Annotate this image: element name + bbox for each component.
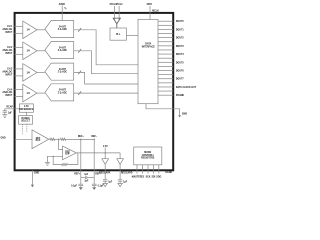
feedback resistor R2 [53, 153, 78, 166]
sigma-delta ADC U4 [45, 84, 74, 101]
svg-text:INPUT: INPUT [5, 95, 12, 97]
svg-text:DOUT2: DOUT2 [176, 38, 185, 40]
svg-text:SCK: SCK [146, 176, 151, 178]
bridge capacitor C2 [81, 176, 94, 179]
svg-text:24-BIT: 24-BIT [59, 89, 67, 92]
mode pin labels [132, 175, 162, 178]
op-amp B2 [63, 146, 77, 160]
bus slash CH2 [78, 49, 81, 53]
svg-text:INPUT: INPUT [5, 32, 12, 34]
svg-text:FRAME: FRAME [176, 94, 185, 97]
CH1 analog input pin labels [2, 26, 13, 34]
dashed control lines [22, 124, 26, 134]
ground C1 [2, 115, 7, 118]
svg-text:RCAP: RCAP [6, 106, 13, 109]
svg-text:1µF: 1µF [8, 112, 13, 114]
wire A2 to ADC [37, 50, 45, 52]
2.5V reference box [19, 104, 34, 112]
bus slash CH3 [78, 71, 81, 75]
svg-text:V₎: V₎ [64, 8, 67, 10]
range select box [19, 116, 33, 125]
buffer T1 [102, 153, 109, 180]
node feedback [53, 156, 54, 157]
svg-text:24-BIT: 24-BIT [59, 46, 67, 49]
wire CH4 ADC output to interface [74, 92, 138, 94]
reference buffer op-amp B1 [32, 130, 49, 149]
svg-text:RANGE: RANGE [21, 117, 30, 120]
svg-text:INTERFACE: INTERFACE [142, 45, 155, 48]
svg-text:CH 1: CH 1 [7, 26, 13, 28]
wire A4 to ADC [37, 92, 45, 94]
svg-text:REFERENCE: REFERENCE [19, 109, 34, 111]
wire PLL to interface [126, 35, 138, 37]
capacitor C1 [3, 111, 7, 115]
ground B2 [45, 162, 50, 165]
svg-text:INPUT: INPUT [5, 74, 12, 76]
svg-text:1µF: 1µF [84, 180, 89, 182]
wire A1 to ADC [37, 29, 45, 31]
svg-text:REGCAPD: REGCAPD [121, 172, 133, 175]
clock input funnel arrow [113, 18, 120, 28]
svg-text:PLL: PLL [116, 34, 121, 36]
wire REFGND to buffer [15, 138, 32, 140]
svg-text:XTAL2: XTAL2 [115, 3, 123, 6]
node REF- [94, 139, 95, 140]
svg-text:0.1µF: 0.1µF [98, 185, 105, 187]
node buffers [105, 152, 106, 153]
svg-text:ANALOG: ANALOG [2, 49, 12, 52]
svg-text:1µF: 1µF [108, 181, 113, 183]
ground C3 [79, 187, 83, 190]
bus slash CH4 [78, 91, 81, 95]
node minus feed [58, 139, 59, 140]
resistor R1 [49, 138, 61, 140]
svg-text:REF+: REF+ [74, 174, 81, 176]
svg-text:REGCAPA: REGCAPA [99, 172, 111, 175]
svg-text:1µF: 1µF [123, 181, 128, 183]
wire reference to range select [25, 112, 27, 115]
REFCAP external wire [5, 109, 20, 111]
wire A3 to ADC [37, 71, 45, 73]
ground C4 [92, 187, 96, 190]
svg-text:CH 4: CH 4 [7, 88, 13, 91]
PLL box [110, 28, 126, 40]
sigma-delta ADC U3 [45, 63, 74, 80]
data interface box U5 [138, 19, 158, 103]
svg-text:Σ-Δ ADC: Σ-Δ ADC [58, 49, 68, 52]
svg-text:24-BIT: 24-BIT [59, 25, 67, 28]
svg-text:SDI: SDI [151, 176, 155, 178]
CH2 analog input pin labels [2, 47, 13, 55]
svg-text:24-BIT: 24-BIT [59, 68, 67, 71]
capacitor C6 [118, 180, 122, 184]
svg-text:REGISTERS: REGISTERS [141, 157, 155, 159]
svg-text:DATA CLOCK OUT: DATA CLOCK OUT [176, 86, 197, 89]
svg-text:ANALOG: ANALOG [2, 28, 12, 31]
XTAL pin wires [115, 6, 120, 21]
svg-text:Σ-Δ ADC: Σ-Δ ADC [58, 28, 68, 31]
svg-text:DOUT5: DOUT5 [176, 62, 185, 64]
mode control box U6 [134, 147, 162, 165]
svg-text:GND: GND [1, 138, 6, 140]
node REF+ [80, 139, 81, 140]
svg-text:ODR: ODR [147, 4, 152, 6]
svg-text:DOUT0: DOUT0 [176, 21, 185, 23]
svg-text:AVDD: AVDD [59, 3, 66, 6]
wire rail to B2 minus input [59, 139, 63, 149]
wire CH2 ADC output to interface [74, 51, 138, 74]
amplifier A3 [23, 64, 37, 82]
CH4 input wires [14, 90, 22, 97]
svg-text:0.1µF: 0.1µF [71, 185, 78, 187]
amplifier A2 [23, 42, 37, 60]
capacitor C4 [92, 178, 97, 188]
resistor R1b [60, 138, 94, 140]
net label stub [104, 148, 106, 153]
wire B2 plus input to ground [47, 156, 62, 162]
svg-text:2.5V: 2.5V [103, 146, 108, 148]
svg-text:DOUT4: DOUT4 [176, 53, 185, 56]
wire interface to external ground [146, 104, 180, 116]
amplifier A4 [23, 84, 37, 102]
sigma-delta ADC U1 [45, 21, 74, 38]
svg-text:SELECT: SELECT [21, 121, 31, 123]
svg-text:SDO: SDO [156, 176, 161, 178]
svg-text:2.5V: 2.5V [24, 106, 29, 108]
svg-text:BUF: BUF [36, 140, 41, 142]
svg-text:ANALOG: ANALOG [2, 71, 12, 74]
svg-text:GND: GND [182, 114, 187, 116]
ground arrow bottom [31, 185, 34, 188]
CH4 analog input pin labels [2, 88, 13, 97]
buffer T2 [117, 153, 124, 180]
svg-text:1µF: 1µF [84, 174, 89, 176]
REF+ pin wire down [80, 139, 82, 177]
CH3 analog input pin labels [2, 69, 13, 77]
svg-text:INPUT: INPUT [5, 53, 12, 55]
CH1 input wires [14, 26, 22, 33]
svg-text:DOUT3: DOUT3 [176, 46, 185, 48]
mode pin wires [137, 165, 159, 174]
wire CH1 ADC output to interface [74, 30, 138, 65]
sigma-delta ADC U2 [45, 42, 74, 59]
svg-text:CS: CS [141, 176, 145, 178]
AVDD pin wire [61, 5, 63, 20]
ground C5 [103, 183, 107, 186]
REF- pin wire down [93, 139, 95, 177]
capacitor C3 [78, 178, 83, 188]
svg-text:GND: GND [34, 172, 39, 174]
CH2 input wires [14, 47, 22, 54]
CH3 input wires [14, 69, 22, 76]
output rail B2 [76, 152, 120, 154]
svg-text:CH 3: CH 3 [7, 69, 13, 71]
svg-text:BUF: BUF [65, 154, 70, 156]
svg-text:CH 2: CH 2 [7, 47, 13, 49]
wire CH3 ADC output to interface [74, 72, 138, 84]
svg-text:MCLK: MCLK [152, 10, 159, 12]
svg-text:DOUT1: DOUT1 [176, 29, 185, 31]
reference rail wire [66, 138, 94, 140]
bus slash CH1 [78, 28, 81, 32]
ODR pin wire [149, 6, 151, 19]
interface pin labels [176, 21, 197, 97]
svg-text:REF+: REF+ [78, 136, 85, 138]
interface output pin stubs [158, 21, 173, 95]
svg-text:REF−: REF− [91, 136, 98, 138]
chip border [15, 13, 174, 170]
svg-text:DOUT6: DOUT6 [176, 70, 185, 72]
ground C6 [118, 183, 122, 186]
svg-text:DATA: DATA [145, 42, 151, 45]
GND pin wire [31, 170, 33, 184]
svg-text:Σ-Δ ADC: Σ-Δ ADC [58, 71, 68, 74]
svg-text:Σ-Δ ADC: Σ-Δ ADC [58, 91, 68, 94]
amplifier A1 [23, 21, 37, 39]
svg-text:ANALOG: ANALOG [2, 91, 12, 94]
ground arrow right [178, 115, 181, 117]
svg-text:DOUT7: DOUT7 [176, 79, 185, 81]
svg-text:DGND: DGND [165, 172, 172, 174]
capacitor C5 [103, 180, 107, 184]
